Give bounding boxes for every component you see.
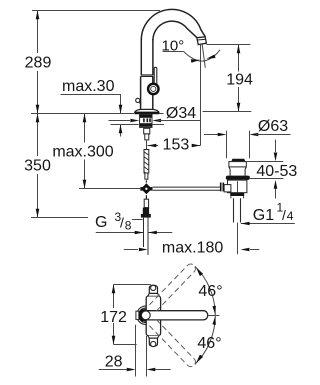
svg-text:46°: 46° xyxy=(197,335,221,352)
dim 350 line xyxy=(37,114,39,218)
dashed lever lower (46°) xyxy=(149,319,195,366)
svg-text:40-53: 40-53 xyxy=(256,163,297,180)
shank connector xyxy=(144,128,150,134)
dim max.30 leader and arrows xyxy=(61,95,121,114)
drain plug cap xyxy=(231,159,245,162)
base dark band xyxy=(134,112,159,114)
solid lever (top view) xyxy=(147,311,208,320)
svg-text:350: 350 xyxy=(24,158,51,175)
top-view knob circles xyxy=(137,306,155,324)
handle knob xyxy=(148,84,158,94)
dim 40-53 extension lines xyxy=(246,162,283,179)
drain cap cylinder xyxy=(229,162,246,167)
svg-text:G1: G1 xyxy=(253,207,274,224)
dim 172 line xyxy=(113,285,115,345)
top-view bottom cap xyxy=(148,336,159,338)
svg-text:4: 4 xyxy=(287,209,294,223)
dim Ø63 arrows xyxy=(204,134,218,136)
spout outer curve xyxy=(141,9,205,40)
dim 28 lines xyxy=(135,325,137,377)
dim 172 extensions xyxy=(114,284,151,286)
arc arrowheads inner at lever axis xyxy=(212,306,216,315)
dim max.300 line xyxy=(84,114,86,189)
svg-text:/: / xyxy=(120,215,124,231)
threaded shank xyxy=(140,114,152,127)
dim 10° leader underline and arc xyxy=(163,51,184,53)
base escutcheon dome xyxy=(135,109,159,112)
svg-text:G: G xyxy=(95,214,107,231)
dim 289 line xyxy=(37,11,39,114)
drain tailpipe xyxy=(234,198,241,222)
svg-text:153: 153 xyxy=(163,137,190,154)
svg-text:172: 172 xyxy=(100,309,127,326)
faucet pipe joint xyxy=(141,75,154,77)
wire: 10° slanted leg xyxy=(202,45,205,68)
knob crescent dark xyxy=(139,310,143,321)
svg-text:Ø34: Ø34 xyxy=(166,105,196,122)
countertop bottom line xyxy=(111,124,165,126)
dashed lever upper (46°) xyxy=(149,264,195,311)
svg-text:289: 289 xyxy=(25,55,52,72)
svg-text:46°: 46° xyxy=(198,283,222,300)
faucet body xyxy=(141,76,153,109)
svg-text:max.300: max.300 xyxy=(52,144,113,161)
supply hose lines xyxy=(143,218,145,247)
lever axis stub xyxy=(209,315,220,317)
dim 40-53 arrows xyxy=(275,140,277,199)
dim Ø63 extension lines xyxy=(227,131,250,159)
handle rod xyxy=(154,67,157,84)
drain bottom nut xyxy=(230,193,244,196)
hose nut dark block xyxy=(143,208,149,216)
short ledge line left of hose xyxy=(132,219,143,221)
knob left flat tab xyxy=(136,311,139,319)
label Ø34 with underline leader xyxy=(158,120,201,122)
node: tailpipe centerline xyxy=(237,223,239,255)
svg-text:28: 28 xyxy=(105,354,123,371)
threaded pull rod with thread hatch xyxy=(144,150,149,174)
spout inner curve xyxy=(153,21,197,40)
drain seal flange xyxy=(226,176,250,180)
svg-text:Ø63: Ø63 xyxy=(258,118,288,135)
horizontal pop-up rod (left, single) xyxy=(79,188,140,190)
pull-rod cross junction xyxy=(142,184,152,194)
top-view body xyxy=(146,296,160,336)
wire: 350 bottom extension xyxy=(31,217,88,219)
svg-text:194: 194 xyxy=(226,72,253,89)
dim max.180 line and arrows xyxy=(124,249,138,251)
drain lower body xyxy=(228,180,247,193)
dim 194 line xyxy=(238,45,240,112)
node: spout outlet vertical extension xyxy=(200,45,202,146)
dim 194 bottom extension xyxy=(203,111,252,113)
faucet left pipe xyxy=(140,39,142,75)
spout aerator tip xyxy=(197,37,207,45)
dim 194 top extension xyxy=(206,44,250,46)
wire: 289 top extension line xyxy=(32,10,160,12)
node: faucet centerline xyxy=(146,140,148,151)
arc arrowheads outer xyxy=(196,268,203,277)
label Ø63 with underline xyxy=(256,134,291,136)
rod lower link xyxy=(144,199,148,207)
drain side knob xyxy=(224,185,231,192)
countertop top line xyxy=(31,113,164,115)
svg-text:max.30: max.30 xyxy=(62,78,115,95)
46° dimension arc xyxy=(195,266,215,364)
svg-text:max.180: max.180 xyxy=(162,240,223,257)
svg-text:8: 8 xyxy=(125,219,132,233)
dim 153 line xyxy=(148,145,201,147)
horizontal pop-up rod (right, double to drain) xyxy=(153,187,221,190)
drain upper body xyxy=(229,167,246,176)
pop-up rod hook on body xyxy=(136,98,140,102)
top-view top cap xyxy=(148,293,159,295)
svg-text:/: / xyxy=(282,207,286,223)
dim Ø34 arrows xyxy=(109,120,131,122)
